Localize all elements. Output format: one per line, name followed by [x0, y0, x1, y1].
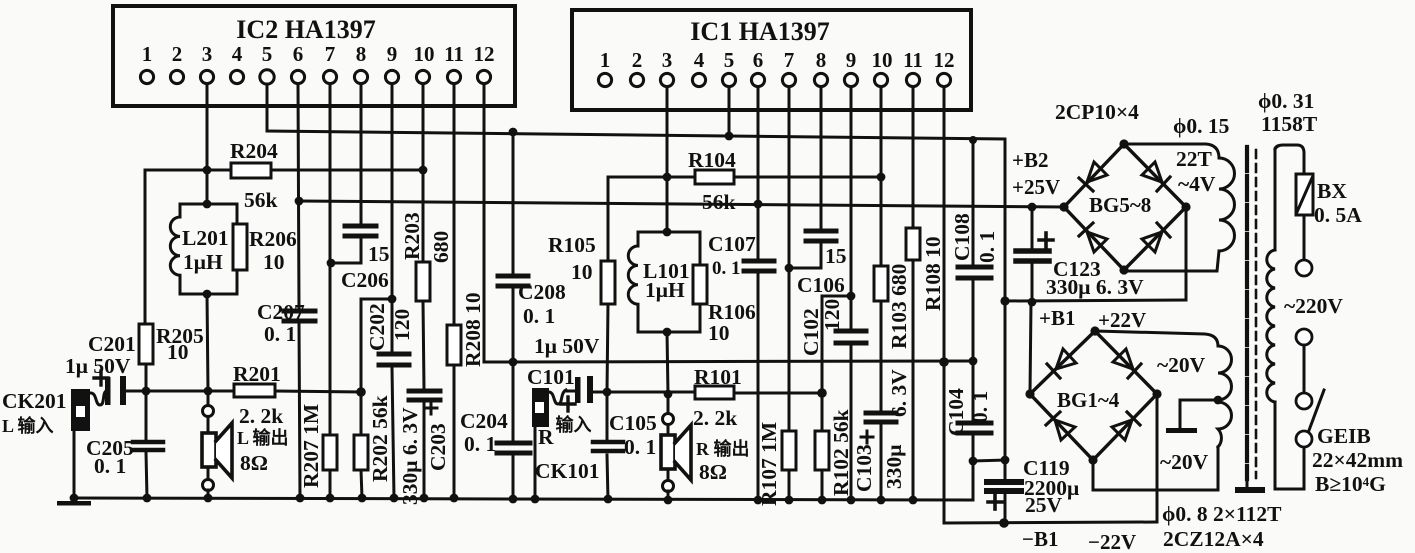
- svg-text:~4V: ~4V: [1178, 172, 1216, 196]
- svg-text:6: 6: [753, 48, 764, 72]
- node ground C207: [296, 494, 305, 503]
- svg-text:+B1: +B1: [1039, 306, 1075, 330]
- node ground R107: [785, 496, 794, 505]
- node bridge BG1-4 vertices: [1090, 326, 1099, 335]
- node C206 jog at pin7: [327, 259, 336, 268]
- svg-text:11: 11: [444, 42, 464, 66]
- svg-text:R102 56k: R102 56k: [829, 409, 853, 496]
- node +B1 rail left end: [1000, 296, 1009, 305]
- node ground C103: [877, 496, 886, 505]
- node ground C205: [143, 494, 152, 503]
- svg-text:4: 4: [694, 48, 705, 72]
- svg-text:−B1: −B1: [1022, 527, 1058, 551]
- wire pin9 jog to R202 branch: [361, 299, 392, 435]
- svg-text:+B2: +B2: [1012, 148, 1048, 172]
- node +25V rail at IC1 pin6: [754, 200, 763, 209]
- svg-text:1μ 50V: 1μ 50V: [534, 334, 600, 358]
- transformer core line solid: [1245, 147, 1249, 479]
- bridge rectifier BG1-4 diamond: [1030, 331, 1157, 460]
- svg-text:15: 15: [368, 242, 390, 266]
- wire IC2 pin8 down to C206: [360, 84, 363, 224]
- node ground C202: [390, 494, 399, 503]
- jack CK201 L input: [71, 389, 106, 431]
- resistor R207 1M: [323, 435, 337, 470]
- resistor R202 56k: [354, 435, 368, 470]
- capacitor C104 0.1: [958, 423, 991, 433]
- svg-text:C207: C207: [257, 300, 305, 324]
- wire C108 line from pin5 rail: [972, 140, 975, 264]
- svg-text:R103 680: R103 680: [887, 264, 911, 349]
- node C106 jog at pin7: [785, 264, 794, 273]
- svg-text:56k: 56k: [702, 190, 736, 214]
- wire R104 feedback (left end down to R105): [608, 177, 695, 261]
- capacitor C204 0.1: [497, 443, 530, 453]
- wire IC1 pin6 down through C107: [757, 87, 760, 259]
- inductor L101 1uH with box: [628, 232, 700, 332]
- wire CK101 ground stem: [534, 427, 537, 499]
- node L101 top: [663, 228, 672, 237]
- node R204-pin10: [419, 166, 428, 175]
- capacitor C201 1u 50V electrolytic: [105, 376, 126, 405]
- wire C123 stem from +25V rail: [1031, 207, 1034, 249]
- bridge rectifier BG5-8 diamond: [1064, 144, 1186, 270]
- wire C101 to input node: [565, 390, 575, 393]
- resistor R107 1M: [782, 431, 796, 470]
- svg-text:3: 3: [662, 48, 673, 72]
- winding ~20V lower secondary: [1093, 402, 1232, 490]
- wire C106 jog to pin7: [789, 243, 821, 268]
- capacitor C205 0.1: [133, 442, 163, 450]
- svg-text:0. 1: 0. 1: [712, 258, 741, 279]
- svg-text:+22V: +22V: [1098, 308, 1146, 332]
- node R104-pin3: [663, 173, 672, 182]
- svg-text:1μ 50V: 1μ 50V: [65, 354, 131, 378]
- node C104 ground corner: [969, 457, 978, 466]
- pin circles IC2 pins 1-12: [140, 70, 490, 84]
- diode BG7 (bottom-left): [1087, 232, 1107, 252]
- wire IC1 pin7 down through R107: [788, 87, 791, 431]
- svg-text:BX: BX: [1317, 179, 1347, 203]
- pin numbers IC1: [600, 48, 955, 72]
- capacitor C119 2200u 25V electrolytic: [987, 482, 1021, 491]
- svg-text:IC2 HA1397: IC2 HA1397: [236, 15, 375, 44]
- resistor R106 10 (parallel with L101): [693, 265, 707, 304]
- wire IC2 pin7 down: [329, 84, 332, 435]
- diode BG2 (top-right): [1113, 349, 1133, 369]
- wire BG1 left vertex riser to +B1 rail: [1030, 302, 1031, 394]
- node pin12 bus at IC1 pin12: [939, 357, 949, 367]
- resistor R201 2.2k: [234, 384, 275, 397]
- wire IC1 pin9 down through C102: [850, 87, 853, 329]
- fuse BX 0.5A: [1296, 174, 1313, 215]
- wire IC2 pin10 down through R203 C203: [422, 84, 425, 262]
- resistor R206 10 (parallel with L201): [233, 224, 247, 270]
- wire IC1 pin8 down to C106: [820, 87, 823, 229]
- inductor L201 1uH with box: [170, 204, 237, 294]
- svg-text:12: 12: [474, 42, 495, 66]
- node pin12 bus at C208/C204: [509, 358, 518, 367]
- svg-text:R101: R101: [694, 365, 742, 389]
- svg-text:10: 10: [263, 250, 285, 274]
- node L101 bottom: [663, 328, 672, 337]
- svg-text:0. 5A: 0. 5A: [1314, 203, 1362, 227]
- wire L101 bottom to speaker node: [667, 332, 668, 394]
- node C123 at +B1 rail: [1028, 298, 1037, 307]
- svg-text:C107: C107: [708, 232, 756, 256]
- svg-text:C103: C103: [852, 444, 876, 492]
- svg-text:R206: R206: [249, 227, 297, 251]
- wire IC2 pin9 down through C202: [391, 84, 394, 352]
- node plug terminal lower ~220V: [1296, 329, 1312, 345]
- svg-text:BG1~4: BG1~4: [1057, 388, 1120, 412]
- svg-text:25V: 25V: [1025, 493, 1063, 517]
- svg-text:C108: C108: [950, 213, 974, 261]
- wire input node to C105: [606, 392, 609, 440]
- wire +25V rail from IC2 pin6 to bridge BG5-8 left vertex: [299, 201, 1064, 207]
- wire ground bus right end up to C104 node: [972, 461, 975, 500]
- node ground R207: [326, 494, 335, 503]
- capacitor C107 0.1: [744, 261, 774, 271]
- svg-text:7: 7: [325, 42, 336, 66]
- svg-text:0. 1: 0. 1: [975, 231, 999, 263]
- svg-text:120: 120: [820, 299, 844, 331]
- wire input line jack to R201: [126, 390, 234, 393]
- svg-text:2CP10×4: 2CP10×4: [1055, 100, 1139, 124]
- svg-text:L201: L201: [182, 226, 229, 250]
- svg-text:GEIB: GEIB: [1317, 424, 1371, 448]
- ground symbol left: [57, 501, 91, 506]
- svg-text:R107 1M: R107 1M: [757, 422, 781, 506]
- node ground R108: [909, 496, 918, 505]
- svg-text:680: 680: [429, 231, 453, 263]
- node plug terminal upper ~220V: [1296, 260, 1312, 276]
- wire rail pin5 bus (IC2 pin5 to IC1 pin5 to right corner): [267, 131, 1005, 139]
- svg-text:3: 3: [202, 42, 213, 66]
- capacitor C105 0.1: [593, 442, 623, 451]
- wire IC2 pin11 down through R208: [453, 84, 456, 325]
- resistor R101 2.2k: [695, 386, 734, 399]
- svg-text:R 输出: R 输出: [696, 438, 750, 459]
- capacitor C203 330u 6.3V electrolytic: [409, 391, 440, 400]
- svg-text:5: 5: [724, 48, 735, 72]
- ground symbol transformer core: [1235, 479, 1265, 493]
- wire IC1 pin12 down to -B1 rail: [943, 87, 946, 362]
- svg-text:9: 9: [846, 48, 857, 72]
- wire IC1 pin10 down through R103 C103: [880, 87, 883, 266]
- svg-text:1μH: 1μH: [183, 250, 223, 274]
- resistor R102 56k: [815, 431, 829, 470]
- node ground C107: [754, 496, 763, 505]
- svg-text:2: 2: [172, 42, 183, 66]
- node pin9 jog IC2: [388, 295, 397, 304]
- plus mark C201: [94, 371, 108, 385]
- node ground CK101: [531, 495, 540, 504]
- svg-text:10: 10: [708, 321, 730, 345]
- svg-text:6. 3V: 6. 3V: [887, 369, 911, 417]
- capacitor C206 15: [345, 226, 376, 236]
- node center tap ~20V: [1214, 396, 1223, 405]
- svg-text:330μ 6. 3V: 330μ 6. 3V: [1046, 275, 1144, 299]
- winding ~20V upper secondary: [1095, 331, 1232, 400]
- node ground jack CK201: [70, 494, 79, 503]
- node pin9 jog IC1: [847, 292, 856, 301]
- svg-text:C201: C201: [88, 332, 136, 356]
- svg-text:4: 4: [232, 42, 243, 66]
- diode BG5 (top-left): [1087, 162, 1107, 182]
- node IC1 pin5 on rail: [725, 132, 734, 141]
- svg-text:C206: C206: [341, 268, 389, 292]
- svg-text:C208: C208: [518, 280, 566, 304]
- svg-text:11: 11: [903, 48, 923, 72]
- svg-text:C104: C104: [944, 388, 968, 436]
- node L201 bottom: [203, 290, 212, 299]
- plus mark C103: [861, 431, 873, 443]
- capacitor C208 0.1: [498, 276, 528, 286]
- ground symbol center tap: [1166, 428, 1197, 433]
- plus mark C101: [561, 397, 575, 411]
- node ground speaker L: [204, 494, 213, 503]
- speaker L output 8ohm: [202, 391, 232, 498]
- node L201 top: [203, 200, 212, 209]
- wire R105 to input node: [607, 304, 608, 392]
- node R201 to pin9 branch: [356, 387, 366, 397]
- resistor R205 10: [139, 324, 153, 364]
- svg-text:ϕ0. 31: ϕ0. 31: [1258, 89, 1314, 113]
- svg-text:R202 56k: R202 56k: [368, 395, 392, 482]
- node ground C102: [847, 496, 856, 505]
- svg-text:2. 2k: 2. 2k: [693, 406, 737, 430]
- wire fuse to plug terminal: [1303, 215, 1306, 260]
- capacitor C202 120: [379, 354, 409, 365]
- node input L at R205: [142, 387, 151, 396]
- wire IC2 pin3 down to L201: [206, 84, 209, 204]
- node R104-pin10: [877, 173, 886, 182]
- svg-text:9: 9: [387, 42, 398, 66]
- node R204-pin3: [203, 166, 212, 175]
- svg-text:R104: R104: [688, 148, 736, 172]
- svg-text:2CZ12A×4: 2CZ12A×4: [1163, 527, 1264, 551]
- svg-text:R105: R105: [548, 233, 596, 257]
- diode BG1 (top-left): [1056, 349, 1076, 369]
- capacitor C102 120: [836, 331, 866, 343]
- wire BG1 right vertex drop to -B1 rail: [1156, 394, 1159, 522]
- svg-text:8: 8: [356, 42, 367, 66]
- node C108 tap on pin5 rail: [969, 136, 977, 144]
- svg-text:8Ω: 8Ω: [240, 451, 268, 475]
- svg-text:B≥104G: B≥104G: [1315, 472, 1386, 496]
- capacitor C101 1u 50V electrolytic: [575, 376, 593, 403]
- wire R204 feedback (left end down to R205): [145, 170, 231, 324]
- speaker R output 8ohm: [661, 394, 691, 500]
- svg-text:R207 1M: R207 1M: [299, 404, 323, 488]
- wire IC2 pin5 down: [266, 84, 269, 131]
- svg-text:C106: C106: [797, 273, 845, 297]
- svg-text:R204: R204: [230, 139, 278, 163]
- svg-text:C105: C105: [609, 411, 657, 435]
- wire L201 bottom to speaker node: [207, 294, 208, 391]
- node ground R208: [450, 494, 459, 503]
- svg-text:12: 12: [934, 48, 955, 72]
- node pin12 bus at C108/C104: [969, 357, 978, 366]
- svg-text:~220V: ~220V: [1284, 294, 1343, 318]
- diode BG3 (bottom-left): [1055, 420, 1075, 440]
- op-amp IC1 HA1397 box: [572, 10, 971, 110]
- svg-text:10: 10: [872, 48, 893, 72]
- op-amp IC2 HA1397 box: [113, 6, 515, 106]
- svg-text:L 输入: L 输入: [2, 415, 54, 436]
- wire IC2 pin12 down to -B wire: [483, 84, 486, 362]
- wire C204 line to ground: [512, 362, 515, 441]
- svg-text:0. 1: 0. 1: [264, 322, 296, 346]
- capacitor C103 330u 6.3V electrolytic: [866, 413, 896, 422]
- capacitor C108 0.1: [958, 267, 991, 278]
- svg-text:15: 15: [825, 244, 847, 268]
- svg-text:6: 6: [293, 42, 304, 66]
- wire C206 jog to pin7: [331, 238, 361, 263]
- node C119 at -B1 rail: [999, 518, 1009, 528]
- svg-text:0. 1: 0. 1: [523, 304, 555, 328]
- svg-text:1: 1: [142, 42, 153, 66]
- wire input line CK101 to R101: [592, 391, 695, 394]
- svg-text:ϕ0. 15: ϕ0. 15: [1173, 114, 1229, 138]
- pin numbers IC2: [142, 42, 495, 66]
- wire plug to switch: [1303, 345, 1306, 393]
- svg-text:R203: R203: [400, 212, 424, 260]
- capacitor C207 0.1: [284, 311, 315, 321]
- svg-text:5: 5: [262, 42, 273, 66]
- svg-text:CK101: CK101: [535, 459, 600, 483]
- capacitor C123 330u 6.3V electrolytic: [1016, 251, 1049, 261]
- node C208 tap on pin5 rail: [509, 128, 518, 137]
- node ground R202: [358, 494, 367, 503]
- node ground C105: [604, 495, 613, 504]
- svg-text:8Ω: 8Ω: [699, 460, 727, 484]
- plus mark C119: [988, 495, 1002, 509]
- svg-text:0. 1: 0. 1: [464, 432, 496, 456]
- switch arm: [1308, 390, 1324, 433]
- svg-text:330μ: 330μ: [882, 445, 906, 489]
- svg-text:CK201: CK201: [2, 389, 67, 413]
- plus mark C123: [1039, 233, 1053, 247]
- jack CK101 R input: [532, 388, 566, 427]
- wire IC2 pin6 down through C207 position: [298, 84, 299, 309]
- wire C104 line: [972, 361, 975, 420]
- center tap wire to ground: [1180, 400, 1218, 427]
- diode BG8 (bottom-right): [1142, 232, 1162, 252]
- wire input node to C205: [145, 391, 148, 440]
- svg-text:R208 10: R208 10: [461, 292, 485, 367]
- wire IC1 pin11 down through R108: [912, 87, 915, 228]
- svg-text:~20V: ~20V: [1157, 353, 1206, 377]
- svg-text:10: 10: [571, 260, 593, 284]
- svg-text:120: 120: [390, 309, 414, 341]
- svg-text:22×42mm: 22×42mm: [1312, 448, 1403, 472]
- diode BG6 (top-right): [1142, 162, 1162, 182]
- node input R at R105: [603, 388, 612, 397]
- svg-text:7: 7: [784, 48, 795, 72]
- svg-text:0. 1: 0. 1: [624, 435, 656, 459]
- svg-text:ϕ0. 8 2×112T: ϕ0. 8 2×112T: [1162, 502, 1282, 526]
- svg-text:R108 10: R108 10: [921, 236, 945, 311]
- resistor R105 10: [601, 261, 615, 304]
- svg-text:330μ 6. 3V: 330μ 6. 3V: [398, 407, 422, 505]
- wire right feed down x=1005: [1004, 139, 1007, 479]
- svg-text:+25V: +25V: [1012, 175, 1060, 199]
- svg-text:R201: R201: [233, 362, 281, 386]
- node ground C203: [420, 494, 429, 503]
- pin circles IC1 pins 1-12: [598, 73, 950, 86]
- svg-text:56k: 56k: [244, 188, 278, 212]
- wire BG5-8 right vertex to +B1 rail: [1185, 207, 1188, 300]
- wire C119 to -B1 rail: [1004, 493, 1007, 523]
- switch GEIB terminal lower: [1296, 431, 1312, 447]
- svg-text:L 输出: L 输出: [237, 427, 289, 448]
- winding 22T ~4V secondary: [1124, 144, 1234, 271]
- node ground speaker R: [664, 496, 673, 505]
- svg-text:BG5~8: BG5~8: [1089, 193, 1151, 217]
- wire R205 to input node: [145, 364, 148, 391]
- svg-text:1: 1: [600, 48, 611, 72]
- node ground C204: [509, 495, 518, 504]
- wire pin9 jog to R102 branch: [822, 296, 851, 431]
- wire C104 node to C119 top: [973, 460, 1005, 461]
- node R101 to pin9 branch: [817, 388, 827, 398]
- svg-text:0. 1: 0. 1: [968, 391, 992, 423]
- resistor R104 56k: [695, 170, 734, 184]
- wire IC1 pin3 down to L101: [666, 87, 669, 232]
- svg-text:C101: C101: [527, 365, 575, 389]
- svg-text:C202: C202: [365, 303, 389, 351]
- node input L at speaker: [204, 387, 213, 396]
- resistor R108 10: [906, 228, 920, 260]
- wire jack CK201 ground stem: [73, 431, 76, 498]
- resistor R208 10: [447, 325, 461, 365]
- node C123 at +25V rail: [1028, 203, 1037, 212]
- svg-text:10: 10: [167, 340, 189, 364]
- resistor R203 680: [416, 262, 430, 301]
- svg-text:−22V: −22V: [1088, 530, 1136, 553]
- diode BG4 (bottom-right): [1112, 420, 1132, 440]
- svg-text:~20V: ~20V: [1160, 450, 1209, 474]
- svg-text:1158T: 1158T: [1261, 112, 1318, 136]
- svg-text:1μH: 1μH: [645, 278, 685, 302]
- svg-text:2. 2k: 2. 2k: [239, 404, 283, 428]
- resistor R103 680: [874, 266, 888, 301]
- svg-text:IC1 HA1397: IC1 HA1397: [690, 17, 829, 46]
- capacitor C106 15: [806, 231, 836, 241]
- winding primary 1158T: [1267, 149, 1304, 489]
- svg-text:22T: 22T: [1176, 147, 1213, 171]
- wire pin12 bus y=362: [484, 361, 973, 362]
- wire primary top to fuse: [1275, 145, 1304, 174]
- node input R at speaker: [664, 390, 673, 399]
- node +25V rail at IC2 pin6: [295, 197, 304, 206]
- wire C208 line from pin5 rail: [512, 132, 515, 274]
- ground bus: [73, 498, 973, 500]
- wire IC1 pin5 stub to rail: [728, 87, 731, 136]
- svg-text:0. 1: 0. 1: [94, 454, 126, 478]
- resistor R204 56k: [231, 163, 271, 178]
- svg-text:C204: C204: [460, 409, 508, 433]
- svg-text:2: 2: [632, 48, 643, 72]
- wire +B1 +22V rail: [1005, 300, 1186, 301]
- svg-text:10: 10: [414, 42, 435, 66]
- wire -B1 -22V rail: [944, 522, 1157, 523]
- plus mark C203: [425, 402, 437, 414]
- switch GEIB terminal upper: [1296, 393, 1312, 409]
- node ground R102: [818, 496, 827, 505]
- node bridge BG5-8 vertices: [1119, 139, 1128, 148]
